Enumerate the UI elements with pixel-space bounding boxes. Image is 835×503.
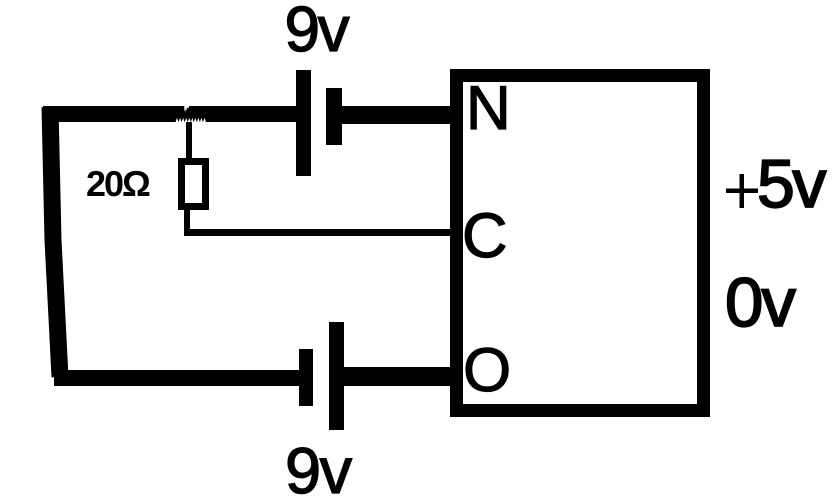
- svg-text:O: O: [463, 336, 511, 405]
- resistor R1 lead bottom: [184, 210, 190, 232]
- relay box U1: [457, 76, 704, 411]
- wire junction scan gap (white zigzag artifact): [176, 106, 207, 122]
- resistor R1 lead top: [186, 122, 192, 158]
- svg-text:5v: 5v: [757, 146, 826, 222]
- svg-text:9v: 9v: [285, 0, 350, 65]
- wire resistor to box pin C: [184, 229, 450, 236]
- battery B2 short plate: [299, 349, 313, 406]
- svg-text:N: N: [466, 74, 511, 143]
- wire top horizontal: [43, 106, 296, 122]
- wire bottom horizontal: [54, 370, 299, 386]
- battery B2 long plate: [329, 322, 344, 430]
- svg-text:C: C: [462, 201, 508, 271]
- battery B1 long plate: [296, 70, 311, 176]
- battery B1 short plate: [326, 88, 342, 145]
- resistor R1 body: [182, 162, 206, 207]
- wire left vertical: [50, 107, 60, 377]
- svg-text:0v: 0v: [725, 264, 796, 341]
- wire battery B1 to box pin N: [342, 106, 450, 124]
- net label +5v plus sign: [726, 174, 758, 208]
- svg-text:20Ω: 20Ω: [86, 163, 150, 204]
- wire battery B2 to box pin O: [344, 367, 450, 386]
- svg-text:9v: 9v: [285, 434, 353, 503]
